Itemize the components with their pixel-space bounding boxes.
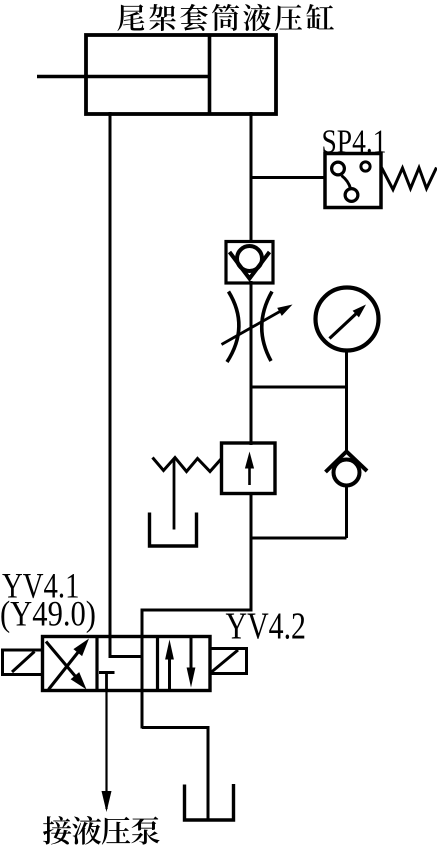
svg-text:(Y49.0): (Y49.0) [0,594,96,634]
wire: right branch down [345,387,348,453]
wire: branch below C2 [345,486,348,539]
check valve C2 seat [326,452,368,473]
throttle valve right arc [262,292,272,362]
svg-text:YV4.2: YV4.2 [226,606,307,648]
wire: branch to pressure switch [251,176,325,179]
right position up arrow [168,655,171,691]
tank T1 [150,513,197,547]
valve divider 1 [95,637,98,691]
solenoid YV4.2 box [210,649,247,674]
gauge needle [330,311,360,339]
cylinder rod [37,75,210,79]
check valve C1 box [226,242,273,284]
solenoid YV4.1 box [3,650,43,675]
left position crossed arrow 2 [49,646,84,690]
sequence valve spring [153,458,222,472]
throttle valve left arc [227,292,239,363]
pressure switch contact circle top-left [332,162,345,175]
check valve C1 ball [237,246,262,271]
sequence valve box [222,443,276,494]
pump line with arrow [105,691,107,809]
gauge stem [345,351,348,388]
pressure switch arm [342,176,351,189]
throttle adjust arrow [222,308,287,345]
U channel in centre position [110,641,142,657]
pressure switch spring [382,168,437,190]
label "接液压泵" [43,816,160,845]
pressure switch SP4.1 box [325,154,381,208]
wire: left pipe from cylinder to valve [109,112,112,658]
right position down arrow [190,637,193,673]
sequence valve flow arrow [248,458,251,485]
directional valve body [43,637,211,691]
cylinder (tailstock sleeve) body [86,35,276,114]
check valve C1 seat [230,252,270,279]
drain line [173,459,176,530]
pressure switch contact circle top-right [361,162,370,171]
pressure switch contact circle bottom [345,189,358,202]
tank T2 [185,784,234,820]
wire: bottom tee of branch [250,537,347,540]
wire: right pipe from cylinder [250,112,253,243]
cylinder piston [208,35,212,114]
check valve C2 ball [334,460,360,486]
wire: main pipe through throttle [250,281,253,445]
pressure gauge [316,288,379,351]
wire: tee to gauge/branch [250,386,349,389]
wire: valve T to tank [142,728,208,820]
title label "尾架套筒液压缸" [117,4,333,31]
wire: pipe below sequence valve [250,494,253,612]
wire: down into valve and through to tank line [141,610,144,729]
valve divider 2 [156,637,159,691]
wire: jog to valve P [141,609,253,612]
blocked port T symbol [99,671,115,674]
left position crossed arrow 1 [46,642,81,684]
